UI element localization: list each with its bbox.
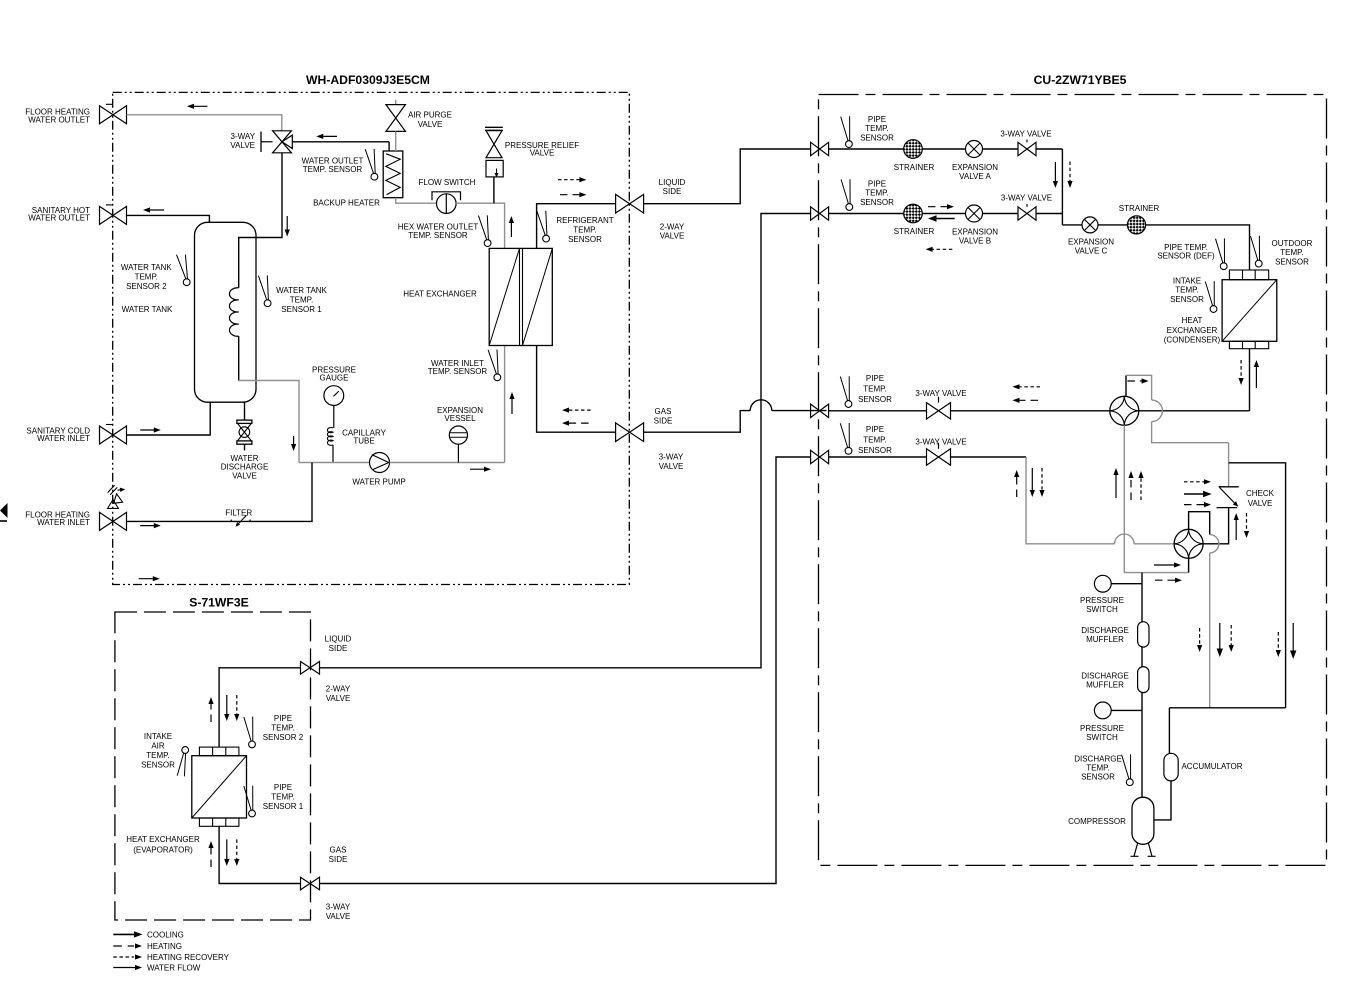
water discharge valve [237,420,252,423]
air purge valve [395,100,397,105]
wire liquid pipe S unit to CU [320,214,811,668]
svg-text:WATER OUTLETTEMP. SENSOR: WATER OUTLETTEMP. SENSOR [302,157,364,175]
wire gas pipe hydro to CU [644,411,827,433]
flow arrows at check valve [1184,481,1207,483]
heat exchanger (condenser) [1222,280,1277,342]
flow arrows at expansion valve B [928,206,950,208]
svg-text:3-WAY VALVE: 3-WAY VALVE [915,389,966,398]
intake air temp sensor [177,753,183,776]
compressor [1132,797,1154,844]
flow arrow right (inlet) [140,525,156,527]
service valve liquid row 2 [811,207,829,220]
flow arrows discharge manifold [1154,564,1177,566]
flow arrows gas row 2 drop [1016,474,1018,497]
wire gas row 2 to 4-way (bottom) [1026,457,1174,544]
svg-text:3-WAYVALVE: 3-WAYVALVE [230,132,255,150]
flow arrow up (HX water in) [511,396,513,414]
svg-text:3-WAYVALVE: 3-WAYVALVE [326,903,351,921]
svg-text:HEX WATER OUTLETTEMP. SENSOR: HEX WATER OUTLETTEMP. SENSOR [398,223,479,241]
pipe temp sensor (liquid 2) [841,180,848,204]
expansion valve C [1082,217,1098,233]
2-way valve (S unit) [301,662,320,675]
water tank [195,222,257,402]
svg-text:3-WAY VALVE: 3-WAY VALVE [915,438,966,447]
wire gas row 1 [829,410,927,412]
flow arrows beside check valve line [1235,517,1237,540]
wire compressor discharge [1141,573,1143,622]
pressure gauge [324,386,344,406]
svg-text:COOLING: COOLING [147,931,184,940]
svg-text:FILTER: FILTER [225,509,252,518]
pipe temp sensor (gas 2) [840,423,847,447]
service valve liquid row 1 [811,142,829,155]
svg-text:3-WAY VALVE: 3-WAY VALVE [1001,194,1052,203]
svg-text:PIPE TEMP.SENSOR (DEF): PIPE TEMP.SENSOR (DEF) [1157,243,1215,261]
wire EV C to strainer [1098,224,1127,226]
accumulator [1164,753,1178,781]
refrigerant temp sensor [537,211,545,235]
valve floor heating water inlet [100,512,127,530]
wire tank exit to pump line [239,381,299,463]
flow arrows down (mid) [1199,628,1201,648]
wire liquid row 2 [829,213,904,215]
svg-text:WATER TANK: WATER TANK [122,305,173,314]
wire HX refrigerant bottom to 3-way valve [537,346,616,433]
flow arrows condenser bottom [1240,360,1242,381]
wire liquid pipe hydro to CU [644,149,811,204]
flow arrows liquid manifold [1054,162,1056,184]
flow arrows below evaporator [210,845,212,867]
flow arrows above evaporator [210,701,212,722]
water inlet temp sensor [488,350,496,374]
valve sanitary cold water inlet [100,426,127,444]
indoor unit S box border [115,612,311,920]
flow arrow down (tank feed) [286,216,288,232]
water tank temp sensor 1 [258,276,266,300]
svg-text:HEATING: HEATING [147,942,182,951]
svg-text:3-WAYVALVE: 3-WAYVALVE [659,453,684,471]
svg-text:BACKUP HEATER: BACKUP HEATER [313,199,380,208]
flow switch [432,192,461,201]
svg-text:COMPRESSOR: COMPRESSOR [1068,817,1126,826]
svg-text:GASSIDE: GASSIDE [329,846,348,864]
wire flow switch to HX water top [456,203,505,248]
capillary tube coil [327,427,333,445]
expansion valve A [966,141,983,158]
wire accumulator to compressor [1154,781,1171,820]
wire liquid row 1 [829,148,904,150]
svg-text:2-WAYVALVE: 2-WAYVALVE [660,223,685,241]
svg-text:FLOW SWITCH: FLOW SWITCH [419,178,476,187]
outdoor unit CU box border [819,95,1327,866]
pressure switch (low) [1094,702,1111,719]
svg-text:GASSIDE: GASSIDE [654,407,673,425]
svg-text:ACCUMULATOR: ACCUMULATOR [1181,762,1242,771]
tank heating coil [229,288,238,337]
refrigerant flow arrows (gas) [566,409,590,411]
discharge muffler 1 [1138,622,1149,647]
svg-text:WATER PUMP: WATER PUMP [352,478,405,487]
flow arrow right [140,429,156,431]
3-way valve (liquid 2) [1018,207,1036,220]
svg-text:SANITARY HOTWATER OUTLET: SANITARY HOTWATER OUTLET [28,206,90,223]
flow arrow up (water to HX top) [510,220,512,237]
strainer (liquid 3) [1127,216,1145,234]
legend cooling [113,933,137,935]
water pump [370,453,390,473]
wire condenser bottom [1249,349,1251,411]
svg-text:STRAINER: STRAINER [1119,204,1160,213]
filter [238,515,247,524]
flow arrow down (to pump line) [293,436,295,447]
hex water outlet temp sensor [478,216,486,240]
outdoor temp sensor [1251,236,1258,260]
wire tank bottom to discharge valve [244,402,246,420]
svg-text:DISCHARGEMUFFLER: DISCHARGEMUFFLER [1081,626,1129,644]
expansion valve B [966,205,983,222]
legend heating [113,945,134,947]
3-way valve (liquid 1) [1018,142,1036,155]
3-way valve (S unit) [301,877,320,890]
wire floor heating outlet to 3-way valve [127,115,282,131]
3-way valve (hydro case) [616,423,644,442]
svg-text:DISCHARGEMUFFLER: DISCHARGEMUFFLER [1081,672,1129,690]
wire gray down from hook to check valve [1228,443,1230,487]
svg-text:PRESSURESWITCH: PRESSURESWITCH [1080,724,1124,742]
wire 4-way (top) down to discharge manifold [1124,425,1188,572]
expansion vessel [449,426,467,444]
wire suction manifold to accumulator [1169,708,1285,754]
wire check valve to 4-way (bottom) right port [1203,508,1229,544]
edge marker glyph [0,503,8,518]
wire gas pipe S unit to CU [320,457,811,884]
svg-text:HEAT EXCHANGER(EVAPORATOR): HEAT EXCHANGER(EVAPORATOR) [126,835,200,854]
svg-text:STRAINER: STRAINER [894,163,935,172]
flow arrows suction line [1115,472,1117,498]
strainer (liquid 2) [904,204,923,223]
wire branch right to accumulator drop [1229,463,1286,708]
pipe temp sensor (DEF) [1216,239,1223,263]
flow arrow in hook [1127,380,1144,382]
svg-text:2-WAYVALVE: 2-WAYVALVE [326,685,351,703]
heat exchanger (evaporator) [192,756,247,818]
pipe temp sensor (liquid 1) [841,117,848,141]
flow arrow left [321,135,338,137]
svg-text:PRESSURESWITCH: PRESSURESWITCH [1080,596,1124,614]
wire liquid manifold down [1061,149,1063,225]
valve sanitary hot water outlet [100,206,127,224]
svg-text:WATER FLOW: WATER FLOW [147,963,201,972]
3-way valve (gas 2) [927,449,951,465]
hydro unit WH box border [113,92,630,584]
svg-text:WH-ADF0309J3E5CM: WH-ADF0309J3E5CM [306,73,430,87]
legend heating recovery [113,956,134,958]
wire sanitary cold inlet to tank bottom [127,402,211,435]
refrigerant flow arrows (gas row 1) [1017,386,1040,388]
wire pump to HX water bottom [390,346,505,463]
check valve [1219,486,1239,488]
pipe temp sensor 2 (S) [244,717,251,741]
discharge temp sensor [1122,755,1129,779]
backup heater [383,151,403,198]
flow arrow right (pump line) [470,468,487,470]
pressure relief valve [485,126,503,128]
3-way valve (hydro) [273,131,293,153]
service valve gas row 1 [811,404,829,417]
refrigerant flow arrows (liquid) [558,179,582,181]
svg-text:3-WAY VALVE: 3-WAY VALVE [1000,130,1051,139]
wire strainer to condenser [1146,225,1250,270]
3-way valve (gas 1) [927,403,951,419]
svg-text:STRAINER: STRAINER [894,227,935,236]
wire pump suction line [299,462,370,464]
flow arrow left [147,209,164,211]
2-way valve (hydro case) [616,194,644,213]
safety relief valve above inlet [108,500,119,509]
wire 3-way valve to backup heater [292,141,389,143]
svg-text:CHECKVALVE: CHECKVALVE [1246,489,1275,508]
pipe temp sensor (gas 1) [840,377,847,401]
strainer (liquid 1) [904,140,923,159]
pipe temp sensor 1 (S) [244,786,251,810]
flow arrows down (right) [1277,632,1279,653]
flow arrow left [191,105,207,107]
svg-text:HEATING RECOVERY: HEATING RECOVERY [147,953,230,962]
legend water flow [113,967,138,969]
pressure switch (high) [1094,575,1111,592]
4-way valve (bottom) [1174,529,1203,558]
wire S gas to evaporator [219,826,300,883]
wire 4-way (bottom) top hook [1189,512,1210,535]
wire sanitary hot to tank [127,215,210,222]
wire coil to tank exit [238,336,240,380]
water outlet temp sensor [365,149,373,173]
heat exchanger (hydro) [489,248,552,345]
flow arrow right (bottom) [139,578,156,580]
svg-text:FLOOR HEATINGWATER OUTLET: FLOOR HEATINGWATER OUTLET [25,108,90,125]
wire backup heater to flow switch [396,198,437,204]
valve floor heating water outlet [100,106,127,124]
service valve gas row 2 [811,450,829,463]
discharge muffler 2 [1138,667,1149,693]
svg-text:S-71WF3E: S-71WF3E [189,596,249,610]
wire S liquid to evaporator [219,668,300,747]
wire 3-way valve down into tank coil [239,153,282,288]
svg-text:WATER INLETTEMP. SENSOR: WATER INLETTEMP. SENSOR [428,359,488,376]
wire gas row 2 [829,456,927,458]
wire floor heating inlet via filter [127,463,313,522]
wire HX refrigerant top to 2-way valve [537,204,616,249]
water tank temp sensor 2 [177,255,186,279]
wire 4-way valve (top) hook [1125,375,1127,396]
svg-text:CU-2ZW71YBE5: CU-2ZW71YBE5 [1034,73,1127,87]
intake temp sensor [1205,282,1212,306]
4-way valve (top) [1110,396,1139,425]
svg-text:HEAT EXCHANGER: HEAT EXCHANGER [403,290,477,299]
